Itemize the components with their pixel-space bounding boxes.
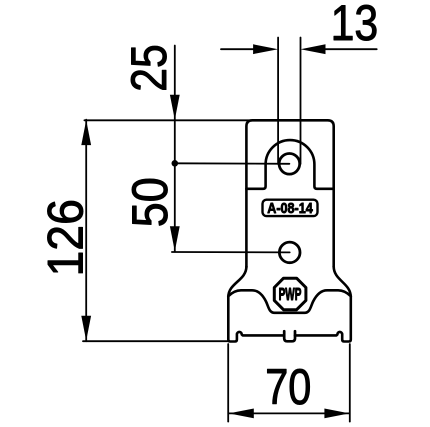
hole 1, dia 13 bbox=[279, 154, 300, 175]
reference dot at hole 1 center bbox=[172, 160, 179, 167]
center foot tab bbox=[284, 331, 295, 341]
extension line: hole 2 center bbox=[172, 251, 290, 253]
arrow 126 bottom bbox=[81, 316, 91, 341]
dimension line 13 left segment bbox=[221, 48, 254, 50]
marking label A-08-14 bbox=[263, 200, 318, 218]
clevis arch with step bbox=[246, 140, 333, 189]
svg-text:70: 70 bbox=[265, 359, 311, 415]
arrow 13 right bbox=[301, 44, 326, 54]
arrow 70 right bbox=[324, 409, 349, 419]
extension line: 13 right tangent bbox=[300, 38, 302, 165]
extension line: 70 right bbox=[349, 344, 351, 422]
extension line: bottom of part (126 reference) bbox=[83, 340, 228, 342]
extension line: top of part (126/25 reference) bbox=[84, 119, 250, 121]
svg-text:25: 25 bbox=[121, 44, 177, 91]
svg-text:PWP: PWP bbox=[279, 284, 302, 304]
bridge profile wavy line bbox=[228, 290, 350, 313]
part outline: upper body bbox=[246, 120, 333, 267]
hole 2 bbox=[279, 242, 300, 263]
extension line: 70 left bbox=[227, 344, 229, 422]
left flare, left foot and left ledge bbox=[228, 267, 284, 342]
svg-text:A-08-14: A-08-14 bbox=[267, 201, 313, 217]
dimension line 13 right segment bbox=[325, 48, 377, 50]
dimension line 126 bbox=[85, 120, 87, 342]
arrow 13 left bbox=[253, 44, 278, 54]
dimension line 25/50 bbox=[174, 46, 176, 252]
arrow 25 bbox=[170, 95, 180, 120]
arrow 126 top bbox=[81, 120, 91, 145]
svg-text:50: 50 bbox=[122, 177, 178, 227]
extension line: hole 1 center bbox=[175, 162, 290, 165]
right ledge, right foot and right flare bbox=[295, 267, 351, 342]
extension line: 13 left tangent bbox=[277, 38, 279, 165]
arrow 50 bbox=[170, 226, 180, 251]
PWP logo octagon bbox=[274, 278, 306, 310]
dimension line 70 bbox=[229, 412, 350, 414]
arrow 70 left bbox=[229, 409, 254, 419]
svg-text:126: 126 bbox=[37, 199, 93, 276]
svg-text:13: 13 bbox=[331, 0, 379, 51]
